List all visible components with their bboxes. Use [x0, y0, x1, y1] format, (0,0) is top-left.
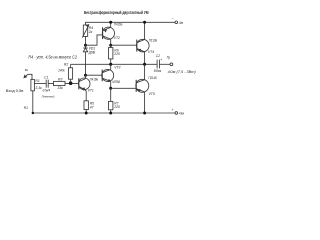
svg-text:Пленочный: Пленочный	[42, 95, 55, 99]
svg-text:R4 - уст. 4,5в на минусе C2: R4 - уст. 4,5в на минусе C2	[28, 55, 77, 60]
svg-text:П416Б: П416Б	[90, 77, 99, 81]
node VT4 collector / top rail	[143, 21, 146, 24]
transistor VT2	[102, 27, 114, 39]
output terminal	[170, 63, 173, 66]
svg-text:2к: 2к	[88, 30, 93, 34]
svg-text:Д9В: Д9В	[89, 51, 96, 55]
svg-text:C1: C1	[44, 76, 48, 80]
diode VD1	[83, 47, 88, 49]
wire C1 to R3	[48, 83, 53, 85]
svg-text:220: 220	[113, 105, 120, 109]
svg-text:47: 47	[90, 105, 94, 109]
svg-text:Вход 0,5в: Вход 0,5в	[6, 88, 24, 93]
svg-text:-9в: -9в	[178, 21, 183, 25]
svg-text:33к: 33к	[57, 86, 63, 90]
svg-text:4Ом (7,5 - 3Вт): 4Ом (7,5 - 3Вт)	[168, 70, 196, 74]
wire node to VT4 base	[111, 44, 137, 46]
node R5/rail	[85, 112, 88, 115]
transistor VT5	[136, 79, 149, 92]
transistor VT3	[102, 69, 114, 81]
svg-text:VT1: VT1	[88, 89, 94, 93]
node VT3 emitter / R7 / VT5 base wire	[109, 87, 112, 90]
svg-text:Вх: Вх	[25, 68, 29, 72]
wire R2 bottom to base node	[70, 79, 72, 83]
capacitor C1	[46, 80, 48, 88]
wire node to VT3 base	[86, 74, 103, 76]
resistor R7	[109, 101, 113, 109]
svg-text:П213Б: П213Б	[149, 39, 158, 43]
node VT5 emitter / rail	[143, 112, 146, 115]
svg-text:240к: 240к	[57, 68, 65, 72]
svg-text:МП38: МП38	[112, 80, 120, 84]
resistor R5	[84, 101, 88, 110]
svg-text:VT3: VT3	[114, 65, 120, 69]
transistor VT1	[78, 78, 90, 90]
svg-text:R1: R1	[35, 79, 39, 83]
node R6/VT3-collector/output line	[109, 63, 112, 66]
svg-text:+: +	[171, 108, 173, 112]
output midpoint line	[71, 63, 158, 65]
bottom supply rail	[33, 112, 175, 114]
svg-text:Бестрансформаторный двухтактны: Бестрансформаторный двухтактный УМ	[84, 10, 149, 15]
svg-text:+: +	[160, 58, 162, 62]
resistor R3	[54, 81, 66, 85]
node VT2 emitter / top rail	[109, 21, 112, 24]
svg-text:П214Б: П214Б	[149, 76, 158, 80]
wire R3 to VT1 base	[65, 83, 79, 85]
wire R2 top to output line	[70, 64, 72, 68]
node R2/base junction	[69, 81, 73, 85]
wire C2 to output terminal	[159, 63, 170, 65]
wire node to VT5 base	[111, 87, 137, 89]
svg-text:R2: R2	[64, 63, 68, 67]
node VT4 emitter / VT5 collector / output line	[143, 63, 146, 66]
wire pot wiper to C1	[34, 83, 46, 85]
svg-text:3,3к: 3,3к	[35, 86, 42, 90]
svg-text:−: −	[172, 17, 174, 21]
svg-text:Гр: Гр	[167, 56, 171, 60]
potentiometer R1	[31, 79, 35, 90]
svg-text:VT5: VT5	[149, 92, 155, 96]
transistor VT4	[137, 39, 150, 52]
svg-text:R1: R1	[24, 106, 28, 110]
input arrow	[24, 74, 32, 79]
wire node to VT2 base	[86, 35, 103, 45]
trimmer R4	[83, 25, 87, 36]
top supply rail	[86, 22, 176, 25]
wire pot bottom to rail	[32, 91, 34, 113]
resistor R2	[69, 68, 73, 79]
bottom supply terminal	[175, 112, 178, 115]
top supply terminal	[175, 21, 178, 24]
svg-text:4,7мкФ: 4,7мкФ	[42, 89, 50, 93]
svg-text:500мк: 500мк	[154, 69, 162, 73]
svg-text:+9в: +9в	[178, 112, 184, 116]
svg-text:VT2: VT2	[114, 36, 120, 40]
svg-text:R3: R3	[58, 77, 62, 81]
node R7/rail	[109, 112, 112, 115]
node VD1/VT1-collector/VT3-base	[84, 74, 87, 77]
resistor R6	[109, 48, 113, 59]
node R4/VD1/VT2-base	[84, 44, 87, 47]
node pot/rail corner	[32, 112, 34, 114]
capacitor C2	[157, 60, 159, 69]
svg-text:220: 220	[113, 52, 120, 56]
node VT2 collector / R6 / VT4 base wire	[109, 44, 112, 47]
svg-text:VT4: VT4	[148, 50, 154, 54]
svg-text:П416Б: П416Б	[114, 22, 123, 26]
wire R4 to node	[85, 36, 87, 45]
